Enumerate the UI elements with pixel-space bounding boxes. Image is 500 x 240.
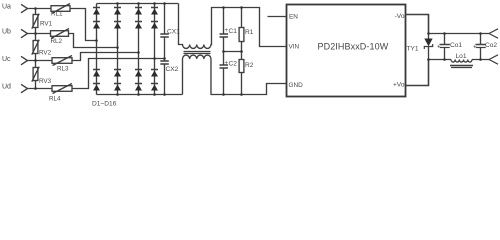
connector output plus: [489, 29, 498, 38]
inductor RL2: [51, 29, 70, 45]
svg-text:Co2: Co2: [485, 42, 497, 49]
capacitor C2: [220, 52, 238, 95]
node tap Ud: [153, 57, 156, 60]
node rail7 C1: [222, 6, 225, 9]
svg-text:RL3: RL3: [57, 65, 69, 72]
svg-text:R2: R2: [245, 62, 254, 69]
inductor RL1: [51, 4, 70, 18]
wire top DC bus: [97, 3, 179, 5]
node bottom bus leg3: [137, 93, 140, 96]
wire bottom DC bus left: [97, 94, 183, 96]
inductor RL3: [52, 56, 72, 73]
wire bridge leg 3: [138, 4, 140, 95]
svg-text:RV1: RV1: [40, 20, 53, 27]
svg-text:RV2: RV2: [39, 50, 52, 57]
wire bridge leg 1: [96, 4, 98, 95]
svg-text:C2: C2: [229, 61, 238, 68]
diode leg4 upper2: [151, 22, 158, 29]
svg-text:C1: C1: [229, 28, 238, 35]
transformer T1 core: [184, 52, 211, 54]
svg-text:R1: R1: [245, 29, 254, 36]
varistor RV3: [32, 61, 52, 89]
node out Co1 bot: [443, 58, 446, 61]
diode leg4 lower1: [151, 70, 158, 77]
node top bus CX1: [163, 2, 166, 5]
connector Ub: [21, 29, 28, 38]
IC module PD2IHBxxD-10W: [287, 5, 406, 97]
node RV3 bottom: [34, 87, 37, 90]
node RV1-RV2: [34, 32, 37, 35]
node rail7 R1: [240, 6, 243, 9]
svg-text:RL2: RL2: [51, 38, 63, 45]
svg-text:Lo1: Lo1: [456, 53, 467, 60]
node RV1 top: [34, 7, 37, 10]
node CX mid: [163, 57, 166, 60]
wire +Vo output: [406, 60, 429, 86]
wire -Vo output: [406, 15, 429, 34]
diode leg4 lower2: [151, 84, 158, 91]
svg-text:VIN: VIN: [289, 44, 300, 51]
svg-text:EN: EN: [289, 14, 298, 21]
varistor RV1: [32, 9, 53, 34]
wire output bottom rail: [429, 59, 490, 61]
wire bridge leg 2: [117, 4, 119, 95]
wire Ud phase: [28, 59, 165, 89]
connector Ua: [21, 4, 28, 13]
diode leg2 upper1: [114, 8, 121, 15]
inductor common-mode choke top winding: [179, 4, 287, 49]
wire mid tie: [224, 51, 242, 53]
inductor RL4: [49, 84, 72, 103]
connector Ud: [21, 84, 28, 93]
svg-text:Co1: Co1: [450, 42, 462, 49]
diode leg2 lower1: [114, 70, 121, 77]
node top bus leg4: [153, 2, 156, 5]
diode leg1 upper2: [93, 22, 100, 29]
capacitor CX2: [160, 61, 178, 95]
inductor common-mode choke bottom winding: [183, 55, 211, 94]
diode leg1 lower2: [93, 84, 100, 91]
capacitor C1: [220, 8, 238, 52]
svg-text:Ua: Ua: [2, 4, 11, 11]
diode leg4 upper1: [151, 8, 158, 15]
connector output minus: [489, 55, 498, 64]
node out TY1 bot: [427, 58, 430, 61]
inductor Lo1: [450, 53, 473, 68]
wire Ub phase: [28, 34, 118, 48]
wire Uc phase: [28, 53, 139, 61]
node bottom bus leg4: [153, 93, 156, 96]
wire bridge leg 4: [154, 4, 156, 95]
resistor R1: [239, 8, 254, 52]
diode leg3 lower2: [135, 84, 142, 91]
node out TY1 top: [427, 32, 430, 35]
svg-text:TY1: TY1: [407, 46, 419, 53]
node out Co2 top: [479, 32, 482, 35]
svg-text:PD2IHBxxD-10W: PD2IHBxxD-10W: [318, 42, 389, 52]
node bottom bus leg2: [116, 93, 119, 96]
svg-text:-Vo: -Vo: [395, 13, 405, 20]
diode leg2 lower2: [114, 84, 121, 91]
node mid C: [222, 50, 225, 53]
node RV2-RV3: [34, 59, 37, 62]
resistor R2: [239, 52, 254, 95]
svg-text:CX2: CX2: [166, 66, 179, 73]
diode leg3 upper2: [135, 22, 142, 29]
node out Co2 bot: [479, 58, 482, 61]
svg-text:RL4: RL4: [49, 96, 61, 103]
node tap Uc: [137, 51, 140, 54]
svg-text:RV3: RV3: [39, 78, 52, 85]
svg-text:GND: GND: [289, 82, 304, 89]
svg-text:+: +: [473, 45, 477, 51]
svg-text:Uc: Uc: [2, 56, 11, 63]
svg-text:RL1: RL1: [51, 10, 63, 17]
svg-text:+Vo: +Vo: [393, 82, 405, 89]
diode leg1 lower1: [93, 70, 100, 77]
varistor RV2: [32, 34, 52, 61]
node bus C2: [222, 93, 225, 96]
diode leg1 upper1: [93, 8, 100, 15]
svg-text:+: +: [437, 45, 441, 51]
svg-text:Ub: Ub: [2, 29, 11, 36]
capacitor CX1: [160, 4, 180, 62]
connector Uc: [21, 56, 28, 65]
node out Co1 top: [443, 32, 446, 35]
node tap Ua: [95, 39, 98, 42]
thyristor TY1: [407, 34, 433, 60]
wire output top rail: [429, 33, 490, 35]
svg-text:Ud: Ud: [2, 84, 11, 91]
diode leg3 upper1: [135, 8, 142, 15]
wire bottom DC bus right to GND: [211, 84, 287, 95]
node tap Ub: [116, 46, 119, 49]
diode leg3 lower1: [135, 70, 142, 77]
wire EN stub: [268, 16, 287, 18]
capacitor Co2: [473, 34, 497, 60]
diode leg2 upper2: [114, 22, 121, 29]
node bottom bus CX2: [163, 93, 166, 96]
node top bus leg2: [116, 2, 119, 5]
capacitor Co1: [437, 34, 462, 60]
wire Ua phase: [28, 9, 97, 41]
node bus R2: [240, 93, 243, 96]
node top bus leg3: [137, 2, 140, 5]
svg-text:D1~D16: D1~D16: [92, 101, 117, 108]
node mid R: [240, 50, 243, 53]
